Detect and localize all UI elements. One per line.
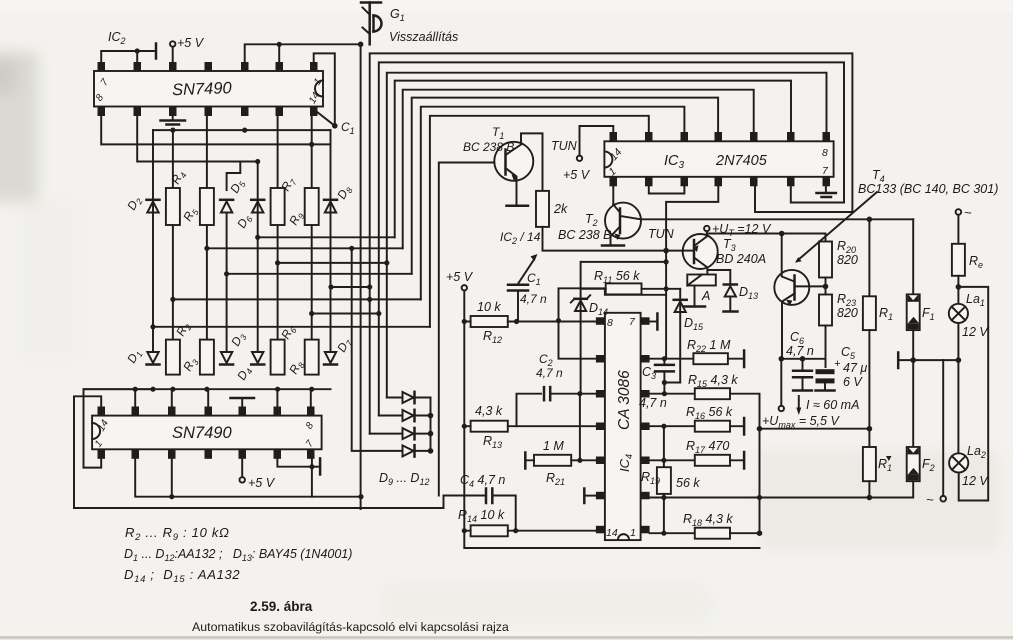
wire T3 emitter node to D13	[707, 270, 730, 283]
wire matrix row 2	[207, 247, 403, 249]
terminal bar IC4 pin6-left	[583, 489, 586, 504]
wire R18 line	[650, 532, 695, 534]
wire pin line to R22	[650, 358, 694, 360]
svg-text:1 M: 1 M	[543, 439, 564, 453]
+5V terminal (IC4 side)	[462, 285, 467, 290]
diode D6	[234, 200, 264, 232]
SN7490#2 pin stubs top	[98, 407, 315, 417]
svg-text:1: 1	[630, 527, 636, 539]
resistor 2k	[536, 191, 549, 227]
svg-text:CA 3086: CA 3086	[616, 370, 633, 430]
IC4 pin stubs left	[596, 317, 605, 533]
svg-text:SN7490: SN7490	[172, 79, 233, 99]
svg-text:4,7 n: 4,7 n	[639, 396, 667, 410]
wire rail end corner to F1	[912, 219, 914, 294]
wire tilde drop	[942, 360, 944, 496]
wire bus line 8	[430, 116, 649, 327]
IC3 pin stubs top	[610, 132, 831, 142]
svg-text:R22 1 M: R22 1 M	[687, 338, 731, 354]
diode D11	[370, 428, 434, 439]
wire R20-R23 junction to T4 base	[825, 278, 827, 295]
svg-text:4,7 n: 4,7 n	[786, 344, 814, 358]
relay coil A	[687, 275, 716, 286]
svg-text:R16 56 k: R16 56 k	[686, 405, 733, 421]
svg-text:I ≈ 60 mA: I ≈ 60 mA	[806, 398, 859, 412]
svg-text:4,3 k: 4,3 k	[475, 404, 503, 418]
node D8/D7 column	[330, 130, 332, 352]
wire R16 line	[650, 425, 695, 427]
resistor R2	[166, 340, 180, 375]
svg-text:+5 V: +5 V	[446, 270, 474, 284]
wire header line B (D2..D8 tops, y=130.1)	[153, 129, 331, 131]
wire header line A (IC2 pin8-bottom across, y=144.4)	[101, 116, 330, 144]
resistor R21 1M	[534, 455, 571, 466]
svg-text:+5 V: +5 V	[563, 168, 591, 182]
~ terminal top	[956, 209, 962, 215]
wire SN7490#2 pins2,3 bottom to long line	[135, 459, 361, 497]
wire matrix row 1	[258, 236, 395, 238]
wire IC2 pin1-top riser to bus segment and C1 drop	[314, 53, 335, 125]
wire R1 drop	[868, 219, 870, 296]
wire long output line (IC4 pin to F2 bottom)	[650, 497, 912, 499]
wire wrapB (D1 line around to SN7490#2 pin1-bottom)	[84, 389, 154, 467]
diode D7	[324, 336, 355, 365]
svg-text:TUN: TUN	[551, 139, 578, 153]
node R9/R8 column	[311, 116, 313, 340]
wire IC2 pin2-bottom to D5/D6 header (y=161.5)	[137, 116, 258, 162]
wire R16 right lead with bar	[730, 425, 744, 427]
wire R11 right lead	[642, 288, 681, 290]
terminal bar A coil	[684, 305, 705, 308]
svg-text:Automatikus szobavilágítás-kap: Automatikus szobavilágítás-kapcsoló elvi…	[192, 620, 509, 634]
svg-text:+UT =12 V: +UT =12 V	[712, 222, 772, 238]
svg-text:820: 820	[837, 253, 858, 267]
svg-text:+Umax = 5,5 V: +Umax = 5,5 V	[762, 414, 840, 430]
wire IC3 pins 2-3 link	[649, 186, 685, 193]
transistor G1 (reset contact symbol)	[361, 3, 382, 45]
svg-text:12 V: 12 V	[962, 325, 989, 339]
wire lower link line y=360	[898, 359, 958, 361]
SN7490 #2 (bottom-left DIP)	[92, 416, 322, 450]
diode D14 (zener)	[571, 289, 608, 394]
transistor T4 BC133	[774, 234, 809, 359]
svg-text:2N7405: 2N7405	[715, 153, 768, 169]
resistor R23 820	[819, 295, 832, 326]
resistor R7	[271, 188, 285, 225]
svg-text:4,7 n: 4,7 n	[520, 292, 547, 306]
wire R22 right lead with bar	[728, 358, 744, 360]
svg-text:Visszaállítás: Visszaállítás	[389, 30, 458, 44]
wire R17 right lead with bar	[730, 459, 744, 461]
diode D2	[124, 194, 159, 214]
svg-text:SN7490: SN7490	[172, 424, 232, 442]
resistor R20 820	[819, 242, 832, 278]
wire +12V feed to R20	[707, 234, 826, 242]
wire R11 left lead	[581, 262, 667, 289]
wire IC3 pin1 to T2 base	[612, 186, 614, 204]
wire R17 line	[650, 459, 695, 461]
wire C5/C6 top rail	[781, 359, 825, 367]
resistor R5	[200, 188, 214, 225]
capacitor C4	[444, 473, 516, 531]
capacitor C5 47u electrolytic	[816, 345, 868, 391]
IC2 SN7490 (top-left DIP)	[94, 71, 324, 107]
wire G1 drop (down to bottom rail)	[360, 44, 362, 509]
SN7490#2 pin stubs bottom	[98, 449, 315, 459]
wire risers SN7490#2 top pins	[134, 389, 136, 406]
node D3 column	[226, 214, 228, 352]
capacitor C3	[639, 359, 674, 410]
svg-text:820: 820	[837, 306, 858, 320]
svg-text:+5 V: +5 V	[177, 36, 205, 50]
node G1 drain	[358, 42, 364, 48]
wire bus line 5	[403, 90, 754, 249]
transistor T2 BC238B	[605, 203, 641, 244]
diode D3	[220, 330, 249, 365]
wire matrix row 5	[331, 286, 370, 288]
resistor R18 4,3k	[695, 528, 730, 539]
IC3 2N7405 (top-right DIP)	[604, 141, 833, 178]
svg-text:R18 4,3 k: R18 4,3 k	[683, 512, 733, 528]
svg-text:8: 8	[822, 147, 828, 159]
+UT=12V terminal	[704, 226, 709, 231]
svg-text:6 V: 6 V	[843, 375, 863, 389]
resistor R12 10k	[471, 316, 508, 327]
wire matrix row 7	[312, 313, 379, 315]
transistor T3 BD240A	[683, 234, 718, 275]
svg-text:BD 240A: BD 240A	[716, 252, 766, 266]
current arrow I=60mA	[798, 396, 800, 411]
resistor R3	[200, 340, 214, 375]
wire matrix row 4	[227, 273, 412, 275]
svg-text:4,7 n: 4,7 n	[536, 366, 563, 380]
svg-text:2k: 2k	[553, 202, 568, 216]
wire R18 right to output vertical	[730, 532, 760, 534]
+5V terminal IC2	[170, 41, 175, 46]
wire 2k bottom to T3 base	[543, 227, 684, 251]
svg-text:+: +	[834, 358, 841, 370]
wire IC2 pins 1-2 link with bar terminal	[101, 51, 156, 62]
wire D9..D12 cathode bus	[430, 398, 432, 451]
diode D12	[352, 248, 434, 456]
diode D8	[324, 183, 355, 213]
svg-text:12 V: 12 V	[962, 474, 989, 488]
wire C2 riser	[517, 394, 542, 427]
node R7/R6 column	[277, 116, 279, 340]
resistor R8	[305, 340, 319, 375]
fuse F2	[907, 447, 935, 481]
wire R14 line	[464, 530, 596, 532]
wire wrapA (SN7490#2 pin1-top around to bottom rail)	[74, 396, 101, 508]
terminal bar T1 emitter	[507, 205, 529, 208]
svg-text:2.59. ábra: 2.59. ábra	[250, 599, 313, 614]
wire R13/pin4 line	[464, 425, 596, 427]
wire R15 line	[650, 393, 695, 395]
node R4/R2 column	[172, 130, 174, 340]
wire R21 line with bar terminal	[524, 453, 527, 469]
capacitor C6 4,7n	[786, 330, 814, 391]
svg-text:TUN: TUN	[648, 227, 675, 241]
wire T1 base	[439, 163, 495, 496]
ground (IC2 pin3 bottom)	[172, 116, 174, 120]
svg-text:BC 238 B: BC 238 B	[558, 228, 612, 242]
svg-text:10 k: 10 k	[477, 300, 501, 314]
wire bus line 2	[379, 62, 844, 415]
wire main rail (T2 collector to F1 corner)	[641, 218, 913, 220]
IC4 pin stubs right	[641, 317, 650, 533]
svg-text:D1 ... D12:AA132 ; D13: BAY4: D1 ... D12:AA132 ; D13: BAY45 (1N4001)	[124, 547, 352, 563]
wire bus line 4	[395, 81, 791, 238]
diode D1	[124, 347, 159, 367]
node D2 column	[152, 130, 154, 352]
diode D4	[234, 352, 264, 383]
~ terminal bottom	[940, 496, 946, 502]
resistor R19 56k (vertical)	[663, 426, 665, 467]
node R5/R3 column	[206, 116, 208, 340]
capacitor C2	[536, 352, 596, 400]
terminal bar T2 emitter	[602, 244, 624, 247]
resistor R1	[863, 296, 876, 330]
resistor R17 470	[695, 455, 730, 466]
diode D13	[724, 285, 759, 312]
capacitor C1a (IC2 pins 1-14 node)	[332, 123, 338, 129]
wire T3 node jog to IC4 pin2-left	[559, 288, 667, 358]
svg-text:+5 V: +5 V	[248, 476, 276, 490]
svg-text:8: 8	[607, 317, 613, 329]
IC2 pin stubs bottom	[98, 107, 318, 117]
resistor R15 4,3k	[695, 388, 730, 399]
wire bus line 7	[421, 107, 685, 300]
wire T3-base vertical to IC4	[665, 251, 667, 359]
resistor R16 56k	[695, 421, 730, 432]
resistor R13 4,3k	[471, 421, 508, 432]
resistor R1*	[863, 447, 876, 481]
terminal bar above SN7490#2 pin5	[241, 399, 243, 407]
wire matrix row 3	[278, 262, 387, 264]
resistor R4	[166, 188, 180, 225]
wire Re node to right branch	[958, 287, 988, 501]
wire bottom rail to C4 jog	[74, 496, 444, 509]
wire bus line 6	[412, 98, 718, 274]
resistor R9	[305, 188, 319, 225]
svg-text:56 k: 56 k	[676, 476, 700, 490]
resistor R6	[271, 340, 285, 375]
wire IC2 pin5/pin6 tops to G1 line	[245, 44, 361, 62]
+5V terminal IC3 pin14	[577, 156, 582, 161]
svg-text:~: ~	[964, 205, 972, 220]
node D6/D4 column	[257, 162, 259, 353]
IC4 CA3086 (vertical DIP)	[605, 313, 641, 540]
terminal bar IC4 pin7-right	[650, 321, 658, 323]
wire R12/pin8 line	[464, 321, 596, 323]
wire IC3 pin4 to T3 base node	[666, 186, 718, 250]
svg-text:~: ~	[926, 492, 934, 507]
wire D14/C2/R21 vertical	[579, 394, 581, 461]
diode D5	[220, 177, 248, 213]
wire D5 top jog	[227, 162, 241, 191]
svg-text:BC 238 B: BC 238 B	[463, 140, 514, 154]
wire +5V vertical	[464, 291, 759, 549]
IC2 pin stubs top	[98, 62, 318, 72]
resistor R22 1M	[693, 353, 728, 364]
wire +Umax rail	[760, 428, 870, 430]
lamp La2	[949, 444, 989, 488]
diode D10	[379, 410, 434, 421]
transistor T1 BC238B	[494, 133, 542, 205]
svg-text:IC2 / 14: IC2 / 14	[500, 230, 541, 246]
svg-text:R17 470: R17 470	[686, 439, 729, 455]
svg-text:14: 14	[606, 527, 618, 539]
wire cathode line (lower row, y=389.2)	[84, 388, 331, 390]
capacitor C1	[500, 230, 547, 322]
wire bus line 1	[370, 53, 853, 433]
resistor R11 56k	[606, 283, 642, 294]
lamp La1	[949, 292, 990, 339]
svg-text:A: A	[701, 289, 710, 303]
diode D15	[674, 289, 704, 383]
diode D9	[387, 392, 431, 403]
ground (IC3 pin7 bottom)	[825, 186, 827, 192]
wire matrix row 6	[173, 298, 421, 300]
wire R15 right to output vertical	[730, 394, 760, 534]
terminal bar (IC2 pin link)	[155, 44, 158, 59]
svg-text:R15 4,3 k: R15 4,3 k	[688, 373, 738, 389]
wire matrix row 8	[153, 326, 430, 328]
svg-text:C4 4,7 n: C4 4,7 n	[460, 473, 505, 489]
wire D15 bottom link	[664, 382, 680, 384]
+5V terminal SN7490#2 pin5	[241, 459, 243, 477]
+Umax terminal	[779, 406, 784, 411]
svg-text:R11 56 k: R11 56 k	[594, 269, 640, 285]
svg-text:R14 10 k: R14 10 k	[458, 508, 505, 524]
relay coil Re	[957, 215, 959, 244]
IC3 pin stubs bottom	[610, 177, 831, 187]
resistor R14 10k	[471, 525, 508, 536]
svg-text:BC133 (BC 140, BC 301): BC133 (BC 140, BC 301)	[858, 182, 998, 196]
wire bus line 3	[387, 73, 827, 398]
fuse F1	[907, 294, 935, 330]
svg-text:47 μ: 47 μ	[843, 361, 867, 375]
wire SN7490#2 pins6,7 link with bar	[277, 459, 312, 467]
